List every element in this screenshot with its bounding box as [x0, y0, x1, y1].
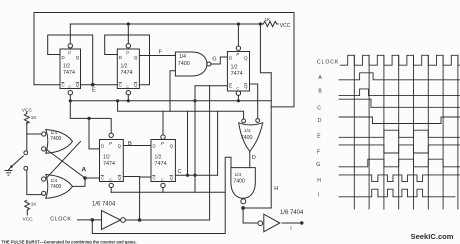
junction dot inverted clock [138, 218, 142, 222]
wire descender to node C [187, 111, 189, 175]
timing grid vertical clock fall 8 [457, 55, 459, 209]
wire FF1 Q-bar to FF2 clock (node E) [81, 84, 118, 86]
wire switch bottom throw [26, 170, 28, 194]
junction dot FF3 preset [237, 22, 240, 25]
svg-text:C: C [68, 85, 71, 89]
waveform C [339, 99, 460, 107]
svg-text:C: C [229, 84, 232, 89]
wire VCC to resistor R2 [26, 112, 28, 114]
svg-text:C: C [153, 176, 156, 181]
wire latch upper input [27, 133, 42, 135]
svg-text:C: C [126, 85, 129, 89]
wire resistor R3 to VCC [26, 210, 28, 215]
svg-text:7474: 7474 [63, 70, 75, 76]
svg-text:E: E [92, 88, 96, 94]
U7 output bubble [121, 218, 126, 223]
timing grid vertical clock fall 7 [442, 55, 444, 209]
svg-text:7474: 7474 [155, 161, 167, 167]
junction dot FF2 clear [127, 99, 130, 102]
wire clear row y192.3 [111, 191, 225, 193]
U10 clear bubble [161, 183, 165, 187]
svg-text:7474: 7474 [231, 71, 243, 77]
waveform F [339, 145, 460, 153]
wire inverted clock riser x209.6 [209, 86, 211, 220]
svg-text:7474: 7474 [103, 161, 115, 167]
wire FF1 clear drop [69, 95, 71, 101]
svg-text:C: C [119, 83, 122, 88]
wire FF3 Qbar to gate U5 input [250, 84, 258, 119]
svg-text:H: H [274, 186, 278, 192]
svg-text:P: P [109, 141, 112, 146]
flip-flop U4 1/2 7474 box [227, 52, 249, 92]
wire gate U6 output to inverter U8 [243, 208, 258, 223]
svg-text:C: C [109, 178, 112, 182]
wire FF5 clear drop [162, 188, 164, 193]
wire H vertical [270, 73, 272, 208]
svg-text:7400: 7400 [178, 61, 190, 67]
U9 preset bubble [109, 133, 113, 137]
wire clock input [78, 219, 102, 221]
wire gate U6 output to H vertical [243, 207, 271, 209]
junction dot gate U6 output [241, 206, 245, 210]
wire FF4 Qbar to riser [123, 176, 139, 178]
U9 clear bubble [109, 183, 113, 187]
U11 input bubble top [42, 132, 46, 136]
svg-text:Q: Q [76, 55, 80, 60]
wire FF2 clear drop [127, 95, 129, 101]
junction dot FF1 clear [69, 99, 72, 102]
junction dot FF3 clear [237, 99, 240, 102]
wire D: gate U5 to gate U6 [249, 152, 251, 168]
waveform H [339, 175, 460, 182]
svg-text:Q: Q [134, 83, 138, 88]
NAND gate U12 1/4 7400 (latch lower) body [46, 175, 73, 199]
wire inverter U8 output (node I) [282, 222, 302, 224]
U5 input bubble left [242, 119, 246, 123]
wire switch lever [12, 156, 24, 167]
timing grid vertical clock fall 3 [383, 55, 385, 209]
junction dot node C x195 [193, 174, 196, 177]
svg-text:C: C [161, 178, 164, 182]
wire preset rail y24 [70, 23, 263, 25]
svg-text:C: C [317, 105, 321, 111]
wire C: FF5 Qbar [175, 174, 217, 176]
resistor R3 1K (lower left, vertical) [25, 200, 30, 210]
waveform G [339, 159, 460, 167]
wire NAND U2 lower input descender [170, 71, 175, 111]
svg-text:E: E [317, 134, 321, 140]
svg-text:P: P [68, 51, 71, 56]
NAND gate U2 1/4 7400 body [175, 52, 207, 76]
wire FF3 clock from inverted clock [195, 85, 227, 87]
timing grid vertical clock fall 1 [353, 55, 355, 209]
svg-text:D: D [101, 144, 104, 149]
svg-text:1K: 1K [31, 202, 38, 207]
svg-text:C: C [101, 176, 104, 181]
resistor R1 1K (top right) [263, 21, 279, 26]
flip-flop U1 1/2 7474 box [60, 49, 81, 89]
svg-text:P: P [126, 51, 129, 56]
svg-text:B: B [318, 88, 322, 94]
svg-text:1K: 1K [265, 17, 272, 22]
svg-text:Q: Q [118, 176, 122, 181]
wire left border to FF1 clock [34, 13, 60, 85]
U6 output bubble [241, 199, 246, 204]
svg-text:G: G [212, 56, 216, 62]
svg-text:7400: 7400 [50, 184, 61, 190]
junction dot L3 tap [87, 117, 90, 120]
junction dot pullup drop [259, 22, 262, 25]
U5 input bubble right [256, 119, 260, 123]
svg-text:D: D [153, 144, 156, 149]
inverter U7 1/6 7404 triangle [102, 211, 121, 230]
svg-text:C: C [62, 83, 65, 88]
wire latch cross coupling 1 [46, 141, 81, 178]
svg-text:F: F [159, 50, 163, 56]
wire B: FF4 Q to FF5 D [123, 145, 151, 147]
junction dot node A [83, 176, 87, 180]
svg-text:F: F [317, 149, 320, 155]
timing grid vertical clock fall 2 [368, 55, 370, 209]
wire latch output to node A and FF4 clock [73, 178, 100, 186]
wire FF2 toggle loop [105, 35, 150, 85]
wire F: FF2 Q to NAND U2 [139, 55, 175, 57]
U2 output bubble [207, 62, 211, 66]
svg-text:CLOCK: CLOCK [50, 217, 71, 223]
junction dot node E [91, 83, 95, 87]
svg-text:7400: 7400 [241, 135, 253, 141]
timing grid vertical clock fall 5 [413, 55, 415, 209]
waveform B [339, 89, 460, 96]
flip-flop U3 1/2 7474 box [117, 49, 139, 89]
svg-text:1/2: 1/2 [155, 155, 162, 161]
wire FF2 preset riser [127, 24, 129, 44]
switch upper contact [24, 151, 28, 155]
svg-text:H: H [317, 178, 321, 184]
svg-text:C: C [178, 169, 182, 175]
junction dot node C descender [186, 174, 189, 177]
wire rail L3 y118.4 to FF4 preset [70, 101, 111, 133]
timing grid vertical clock fall 4 [398, 55, 400, 209]
svg-text:D: D [318, 118, 322, 124]
arrowhead node I [300, 221, 303, 224]
wire top feedback border (H net) [34, 13, 294, 107]
wire inverter U7 output to x209.6 riser [125, 219, 209, 221]
svg-text:Q: Q [170, 176, 174, 181]
wire FF3 clear drop [237, 95, 239, 100]
svg-text:THE PULSE BURST—Generated by c: THE PULSE BURST—Generated by combining t… [2, 239, 137, 244]
wire long vertical x195 [194, 86, 196, 193]
junction dot L2 tap [116, 99, 119, 102]
timing grid vertical clock fall 6 [427, 55, 429, 209]
waveform E [339, 130, 460, 137]
waveform A [339, 73, 460, 80]
wire FF1 toggle loop [48, 35, 93, 85]
U3 clear bubble [126, 91, 130, 95]
svg-text:D: D [62, 55, 65, 60]
switch pole dot [10, 165, 13, 168]
wire FF5 preset riser [162, 111, 164, 135]
svg-text:Q: Q [170, 144, 174, 149]
flip-flop U9 1/2 7474 box [100, 140, 124, 182]
U11 input bubble bottom [42, 147, 46, 151]
wire drop to FF4 D input [89, 118, 100, 148]
waveform I [339, 189, 455, 197]
svg-text:Q: Q [244, 84, 248, 89]
svg-text:B: B [128, 141, 132, 147]
wire switch top throw [26, 134, 28, 151]
svg-text:1/4: 1/4 [244, 128, 251, 134]
waveform CLOCK [340, 55, 460, 65]
U1 clear bubble [68, 91, 72, 95]
NAND gate U5 1/4 7400 (negative-OR, pointing down) body [239, 123, 263, 152]
svg-text:Q: Q [244, 56, 248, 61]
svg-text:1/2: 1/2 [121, 64, 128, 70]
svg-text:P: P [236, 52, 239, 57]
switch lower contact [24, 166, 28, 170]
svg-text:1/2: 1/2 [231, 65, 238, 71]
U8 input bubble [258, 221, 263, 226]
svg-text:D: D [229, 56, 232, 61]
svg-text:D: D [252, 155, 256, 161]
svg-text:Q: Q [134, 55, 138, 60]
NAND gate U11 1/4 7400 (latch upper) body [46, 130, 73, 154]
wire resistor R2 to latch [26, 123, 28, 135]
svg-text:1/6 7404: 1/6 7404 [280, 210, 304, 216]
wire G: NAND U2 output to FF3 D [211, 57, 228, 64]
wire riser x139.6 [139, 177, 141, 221]
svg-text:Q: Q [118, 144, 122, 149]
U12 input bubble bottom [42, 191, 46, 195]
svg-text:Q: Q [76, 83, 80, 88]
wire FF5 clock stub [140, 176, 151, 178]
resistor R2 1K (upper left, vertical) [24, 114, 29, 124]
svg-text:VCC: VCC [280, 23, 291, 29]
svg-text:1/4: 1/4 [179, 54, 186, 60]
svg-text:D: D [119, 55, 122, 60]
wire latch lower input [27, 193, 41, 196]
U4 clear bubble [236, 91, 240, 95]
wire rail L2 y111.2 to gate U5 input [118, 101, 244, 119]
wire FF1 preset riser [69, 24, 71, 44]
ground symbol [5, 171, 13, 176]
svg-text:7400: 7400 [50, 136, 61, 142]
wire FF4 clear drop [110, 188, 112, 193]
svg-text:1/2: 1/2 [63, 64, 70, 70]
svg-text:P: P [161, 141, 164, 146]
svg-text:1K: 1K [31, 115, 38, 120]
svg-text:1/4: 1/4 [235, 172, 242, 178]
wire node C riser to L2 [217, 111, 219, 175]
svg-text:7400: 7400 [233, 178, 245, 184]
svg-text:I: I [318, 193, 319, 199]
svg-text:1/2: 1/2 [103, 155, 110, 161]
NAND gate U6 1/4 7400 (pointing down) body [231, 168, 255, 199]
flip-flop U10 1/2 7474 box [151, 140, 175, 182]
waveform D [339, 117, 460, 124]
svg-text:7474: 7474 [121, 70, 133, 76]
svg-text:VCC: VCC [22, 107, 33, 113]
svg-text:SeekIC.com: SeekIC.com [411, 232, 454, 241]
wire latch cross coupling 2 [46, 149, 85, 178]
inverter U8 1/6 7404 triangle [264, 214, 280, 232]
svg-text:1/6 7404: 1/6 7404 [92, 202, 116, 208]
wire switch common to ground [9, 167, 12, 170]
U12 input bubble top [42, 177, 46, 181]
U10 preset bubble [161, 135, 165, 139]
wire FF3 preset riser [237, 24, 239, 46]
junction dot FF2 preset [127, 22, 130, 25]
svg-text:I: I [290, 226, 291, 232]
svg-text:C: C [236, 87, 239, 91]
junction dot clock input [91, 218, 95, 222]
svg-text:A: A [318, 75, 322, 81]
svg-text:CLOCK: CLOCK [317, 59, 339, 65]
U3 preset bubble [126, 44, 130, 48]
U1 preset bubble [68, 44, 72, 48]
wire pullup drop to H vertical [260, 24, 271, 73]
U4 preset bubble [236, 46, 240, 50]
svg-text:A: A [82, 166, 87, 173]
svg-text:G: G [316, 162, 320, 168]
wire clock return loop to gate U6 [92, 157, 231, 233]
wire clear rail L1 y100.8 [70, 100, 271, 102]
svg-text:VCC: VCC [23, 217, 34, 223]
junction dot x195 clear rail [193, 99, 196, 102]
